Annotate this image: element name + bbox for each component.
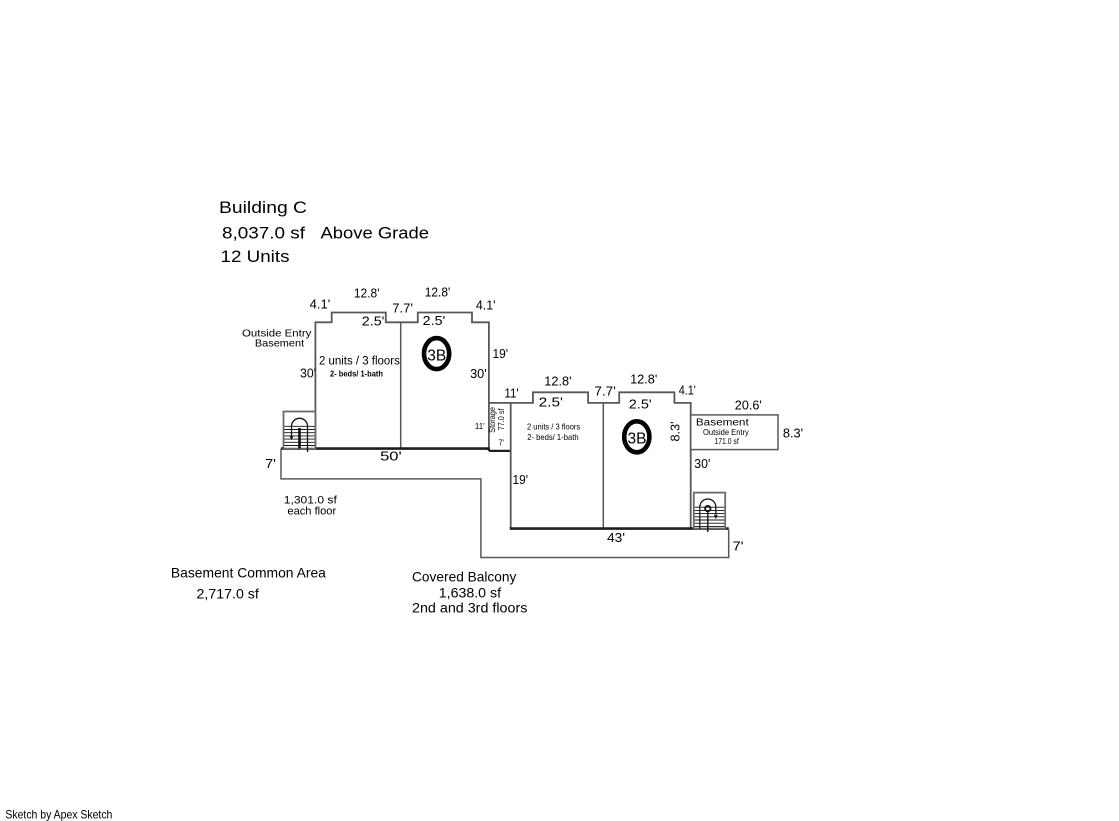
svg-text:Basement: Basement — [255, 338, 304, 350]
building 2 outline top profile — [533, 392, 691, 404]
svg-text:12.8': 12.8' — [354, 287, 380, 301]
stairs 2 tail line — [707, 511, 709, 532]
svg-text:8.3': 8.3' — [783, 427, 803, 441]
svg-text:2 units / 3 floors: 2 units / 3 floors — [319, 356, 400, 368]
unit circle 3B building 2 — [624, 421, 649, 452]
svg-text:8,037.0 sf: 8,037.0 sf — [222, 224, 305, 243]
svg-text:2.5': 2.5' — [539, 395, 563, 409]
storage bottom thick wall — [489, 449, 511, 451]
stairs 1 center rail — [298, 428, 301, 449]
building 1 right wall — [488, 321, 490, 451]
stairs 1 u-turn arc — [292, 418, 308, 452]
svg-text:12 Units: 12 Units — [221, 247, 290, 266]
stairs 2 left leg — [699, 508, 701, 529]
svg-text:7': 7' — [733, 540, 744, 554]
stairs 2 box — [694, 493, 725, 529]
storage right wall and building 2 left wall — [510, 403, 512, 529]
stairs 2 treads — [695, 507, 725, 526]
svg-text:2- beds/ 1-bath: 2- beds/ 1-bath — [527, 432, 579, 442]
building 2 interior wall — [602, 403, 604, 529]
svg-text:2 units / 3 floors: 2 units / 3 floors — [527, 421, 580, 431]
svg-text:4.1': 4.1' — [310, 298, 331, 312]
svg-text:each floor: each floor — [287, 505, 336, 517]
svg-text:7': 7' — [498, 439, 504, 448]
unit circle 3B building 1 — [424, 338, 449, 369]
stairs 1 down arrow — [291, 427, 293, 437]
stairs 2 u-turn arc — [700, 499, 716, 514]
svg-text:3B: 3B — [427, 347, 446, 364]
svg-text:2.5': 2.5' — [423, 314, 446, 328]
building 1 interior wall — [400, 322, 402, 448]
svg-text:2.5': 2.5' — [362, 315, 385, 329]
svg-text:12.8': 12.8' — [630, 373, 657, 387]
svg-text:4.1': 4.1' — [476, 299, 496, 313]
building 2 bottom thick wall — [510, 527, 729, 530]
svg-text:2nd and 3rd floors: 2nd and 3rd floors — [412, 600, 527, 616]
svg-text:11': 11' — [504, 387, 518, 401]
svg-text:19': 19' — [513, 473, 529, 487]
basement common area strip left outline — [281, 449, 729, 558]
building 2 right wall — [690, 402, 692, 529]
svg-text:2.5': 2.5' — [629, 397, 652, 411]
svg-text:2,717.0 sf: 2,717.0 sf — [197, 586, 259, 602]
svg-text:8.3': 8.3' — [669, 422, 683, 442]
svg-text:171.0 sf: 171.0 sf — [714, 436, 739, 446]
svg-text:Covered Balcony: Covered Balcony — [412, 569, 516, 585]
svg-text:12.8': 12.8' — [544, 375, 571, 389]
stairs 2 spiral circle — [705, 506, 710, 511]
svg-text:30': 30' — [300, 367, 316, 381]
svg-text:Building C: Building C — [219, 198, 307, 217]
svg-text:50': 50' — [380, 450, 402, 464]
svg-text:2- beds/ 1-bath: 2- beds/ 1-bath — [330, 368, 383, 378]
building 1 left wall — [314, 321, 316, 448]
stairs 1 box — [284, 412, 316, 449]
svg-text:30': 30' — [694, 457, 710, 471]
svg-text:1,638.0 sf: 1,638.0 sf — [439, 585, 501, 601]
svg-text:43': 43' — [607, 531, 625, 545]
svg-text:11': 11' — [475, 422, 485, 431]
svg-text:77.0 sf: 77.0 sf — [496, 408, 506, 430]
svg-text:7.7': 7.7' — [594, 385, 615, 399]
svg-text:4.1': 4.1' — [679, 383, 696, 397]
svg-text:Sketch by Apex Sketch: Sketch by Apex Sketch — [5, 808, 112, 821]
svg-text:7.7': 7.7' — [392, 301, 413, 315]
svg-text:19': 19' — [493, 347, 509, 361]
storage top wall / 11ft segment — [489, 402, 533, 404]
stairs 1 treads — [284, 426, 314, 445]
svg-text:Above Grade: Above Grade — [321, 224, 430, 243]
building 1 outline top profile — [315, 313, 489, 323]
building 1 bottom thick wall — [281, 447, 490, 450]
svg-text:3B: 3B — [628, 431, 647, 448]
stairs 2 down arrow — [714, 515, 718, 520]
svg-text:12.8': 12.8' — [425, 286, 451, 300]
svg-text:20.6': 20.6' — [735, 398, 762, 412]
basement outside entry box — [691, 415, 778, 450]
svg-text:30': 30' — [470, 367, 487, 381]
svg-text:Basement Common Area: Basement Common Area — [171, 565, 326, 581]
svg-text:7': 7' — [265, 457, 276, 471]
